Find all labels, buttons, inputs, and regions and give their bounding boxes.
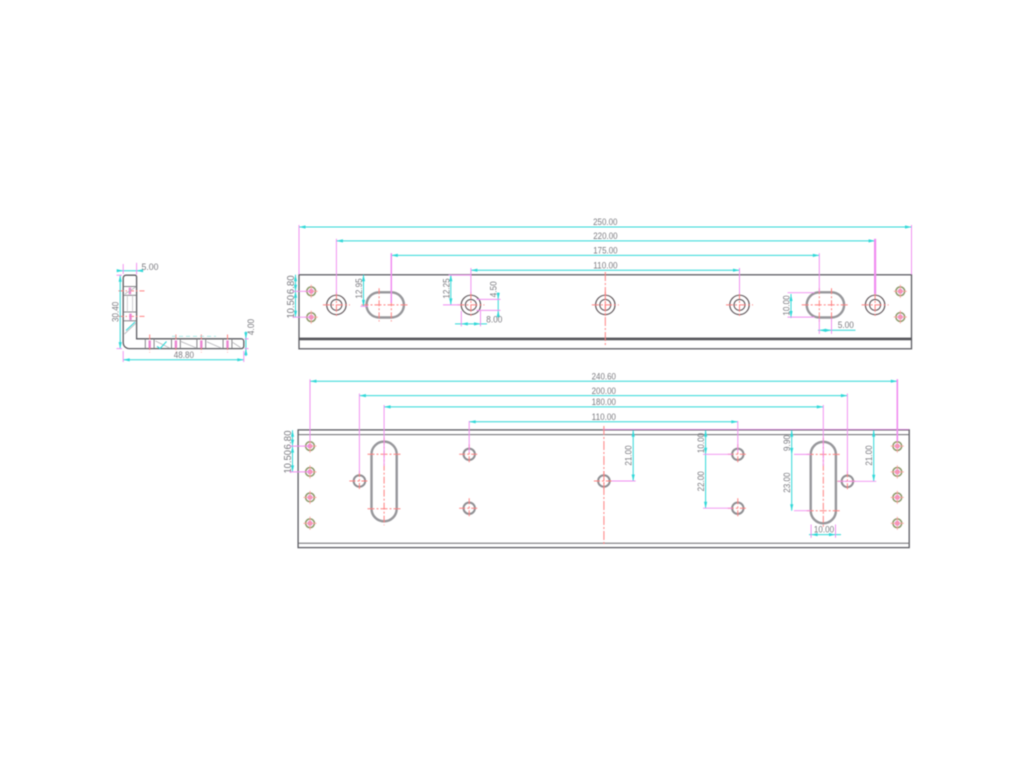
dimension 175.00 (391, 246, 819, 257)
svg-text:10.00: 10.00 (814, 525, 834, 536)
dimension 23.00 (782, 454, 810, 510)
dimension 6.80 / 10.50 (top view left) (286, 275, 311, 319)
hole pair P1 top (459, 444, 479, 464)
dimension 240.60 (310, 371, 897, 382)
dimension 110.00 (bottom) (469, 412, 738, 423)
svg-text:5.00: 5.00 (142, 262, 159, 273)
dimension 6.80 / 10.50 (bottom view left) (283, 430, 310, 474)
dimension 200.00 (359, 386, 847, 397)
hole centerlines H1-H4 (149, 335, 229, 353)
svg-text:10.50: 10.50 (283, 450, 294, 474)
slot S4 (right, bottom view) (807, 438, 840, 528)
L-bracket outline (123, 275, 244, 348)
dimension 110.00 (471, 260, 740, 271)
hole B1 (349, 471, 369, 491)
dimension 21.00 (right) (838, 430, 876, 481)
dimension 22.00 (696, 454, 732, 508)
svg-text:12.25: 12.25 (441, 278, 452, 298)
mount hole L4 (304, 517, 317, 530)
hole projections in vertical leg (123, 287, 136, 321)
svg-text:48.80: 48.80 (174, 350, 194, 361)
dimension 48.80 (123, 350, 244, 362)
mount hole R2 (891, 465, 904, 478)
svg-text:4.50: 4.50 (489, 281, 500, 297)
svg-text:12.95: 12.95 (354, 278, 365, 298)
bottom plate outline (298, 430, 909, 548)
svg-text:5.00: 5.00 (838, 320, 854, 331)
svg-text:180.00: 180.00 (592, 397, 616, 408)
hole pair P1 bottom (459, 498, 479, 518)
svg-text:250.00: 250.00 (593, 217, 617, 228)
dimension 30.40 (111, 275, 122, 348)
dimension 10.00 (slot S2 width) (781, 293, 814, 318)
mount hole R4 (891, 517, 904, 530)
svg-text:4.00: 4.00 (246, 319, 257, 335)
extension lines bottom view (310, 379, 897, 474)
hole B3 (837, 471, 857, 491)
dimension 21.00 (left) (612, 430, 636, 481)
hole bore lines in vertical leg (127, 295, 132, 312)
svg-text:9.90: 9.90 (782, 435, 793, 451)
hole centerline V2 (119, 314, 146, 321)
svg-text:21.00: 21.00 (864, 445, 875, 465)
slot S1 (left, top view) (362, 288, 409, 321)
dimension 12.25 (441, 275, 471, 305)
hole pair P2 top (728, 444, 748, 464)
edge hole E1 (305, 285, 318, 298)
svg-text:175.00: 175.00 (593, 246, 617, 257)
mount hole L1 (304, 440, 317, 453)
svg-text:110.00: 110.00 (593, 260, 617, 271)
mount hole L2 (304, 465, 317, 478)
dimension 10.00 (slot S4 width) (809, 525, 841, 538)
edge hole E2 (305, 311, 318, 324)
svg-text:110.00: 110.00 (592, 412, 616, 423)
dimension 5.00 (slot S2 centers) (818, 319, 856, 334)
svg-text:21.00: 21.00 (624, 445, 635, 465)
slot S3 (left, bottom view) (368, 438, 401, 526)
dimension 180.00 (384, 397, 823, 408)
dimension 8.00 (455, 311, 502, 326)
mount hole R1 (891, 440, 904, 453)
edge hole E3 (894, 285, 907, 298)
hole projections in horizontal leg (145, 339, 232, 349)
slot S2 (right, top view) (802, 288, 849, 321)
svg-text:220.00: 220.00 (593, 231, 617, 242)
dimension 250.00 (299, 217, 912, 228)
svg-text:30.40: 30.40 (111, 302, 122, 322)
hole centerline V1 (119, 288, 146, 295)
dimension 9.90 (782, 430, 793, 454)
mount hole L3 (304, 491, 317, 504)
dimension 4.00 (244, 319, 256, 356)
dimension 12.95 (354, 275, 368, 307)
dimension 5.00 (leg thickness) (117, 262, 159, 275)
dimension 220.00 (336, 231, 875, 242)
hole pair P2 bottom (728, 498, 748, 518)
svg-text:10.50: 10.50 (286, 295, 297, 319)
top plate outline (299, 275, 912, 349)
svg-text:200.00: 200.00 (592, 386, 616, 397)
counterbore hole A1 (323, 292, 350, 318)
counterbore hole A3 (center) (592, 272, 619, 347)
dimension 10.00 (pair offset) (696, 430, 707, 454)
dimension 4.50 (477, 281, 501, 317)
edge hole E4 (894, 311, 907, 324)
counterbore hole A5 (862, 292, 889, 318)
extension lines top view (299, 225, 912, 303)
hole B2 (center) (594, 426, 614, 545)
hatch marks (125, 287, 241, 349)
svg-text:22.00: 22.00 (696, 471, 707, 491)
svg-text:240.60: 240.60 (592, 371, 616, 382)
svg-text:10.00: 10.00 (696, 433, 707, 453)
svg-text:10.00: 10.00 (781, 295, 792, 315)
top edge extension line (magenta) (603, 428, 910, 430)
top plate bend line (299, 338, 912, 341)
counterbore hole A4 (726, 292, 753, 318)
svg-text:23.00: 23.00 (782, 473, 793, 493)
svg-text:8.00: 8.00 (486, 314, 502, 325)
bottom plate fold lines (298, 435, 909, 544)
counterbore hole A2 (457, 292, 484, 318)
mount hole R3 (891, 491, 904, 504)
